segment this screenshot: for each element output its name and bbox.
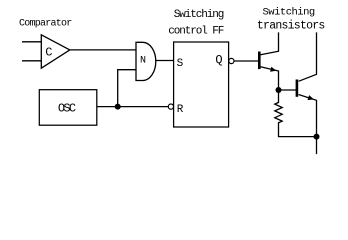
svg-text:C: C (45, 45, 52, 59)
svg-text:transistors: transistors (257, 19, 325, 32)
svg-text:Comparator: Comparator (19, 19, 72, 30)
svg-text:Q: Q (215, 53, 222, 67)
svg-text:N: N (140, 56, 146, 67)
svg-text:Switching: Switching (174, 9, 224, 21)
svg-text:S: S (177, 58, 184, 70)
svg-text:Switching: Switching (263, 7, 315, 19)
svg-text:control FF: control FF (168, 26, 224, 38)
svg-text:OSC: OSC (58, 102, 76, 116)
svg-text:R: R (177, 104, 184, 116)
